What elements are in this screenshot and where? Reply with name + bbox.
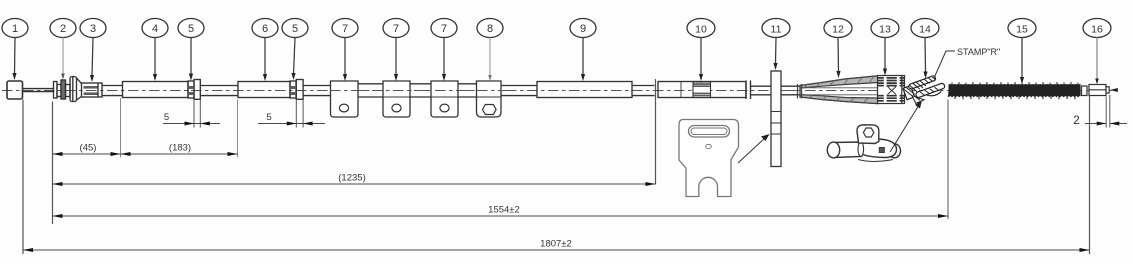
leader from equalizer to clevis bbox=[890, 100, 922, 152]
extension line x303.1 (5 dim) bbox=[302, 100, 304, 128]
svg-text:(183): (183) bbox=[169, 143, 191, 154]
dark square notch bbox=[879, 148, 884, 153]
bracket 7a bbox=[331, 81, 359, 117]
leader arrowhead balloon 13 bbox=[883, 69, 887, 76]
balloon 2 bbox=[50, 19, 76, 38]
balloon 15 bbox=[1008, 19, 1036, 38]
collar 5 second bbox=[194, 80, 200, 100]
leader line balloon 16 bbox=[1096, 38, 1098, 79]
bracket 7c bbox=[431, 81, 458, 117]
extension line x1106.2 (2 dim) bbox=[1105, 97, 1107, 128]
leader line balloon 7b bbox=[395, 38, 397, 76]
inner cable left bbox=[23, 89, 55, 92]
centerline bbox=[2, 90, 1116, 92]
svg-text:1554±2: 1554±2 bbox=[488, 205, 520, 216]
balloon numbers bbox=[12, 23, 1103, 36]
dim 1554±2 bbox=[53, 205, 949, 219]
thin tube bbox=[102, 86, 123, 96]
balloon leader arrowheads bbox=[12, 63, 1098, 85]
connector body / hook bbox=[861, 139, 897, 158]
bracket 8 bbox=[477, 81, 502, 117]
svg-text:4: 4 bbox=[152, 23, 158, 35]
ribbed sleeve 10 bbox=[693, 82, 711, 98]
tube segment 10 bbox=[658, 82, 746, 98]
clevis fork 14 bbox=[902, 73, 946, 105]
leader arrowhead balloon 16 bbox=[1095, 79, 1099, 85]
balloon 14 bbox=[911, 19, 939, 38]
collar 5b ribbed bbox=[290, 81, 296, 98]
balloon 9 bbox=[570, 19, 596, 38]
rod after plate bbox=[781, 86, 801, 95]
svg-text:7: 7 bbox=[342, 23, 348, 35]
balloon 12 bbox=[824, 19, 852, 38]
balloon 13 bbox=[871, 19, 899, 38]
leader line balloon 15 bbox=[1021, 38, 1023, 78]
balloon 16 bbox=[1083, 19, 1111, 38]
balloon 6 bbox=[252, 19, 278, 38]
conduit tube 6 bbox=[238, 82, 290, 98]
svg-text:6: 6 bbox=[262, 23, 268, 35]
leader arrowhead balloon 4 bbox=[153, 74, 157, 81]
leader line balloon 5 bbox=[190, 38, 192, 75]
leader arrowhead balloon 8 bbox=[488, 75, 492, 81]
rod B bbox=[66, 85, 71, 97]
svg-text:7: 7 bbox=[441, 23, 447, 35]
svg-text:(1235): (1235) bbox=[338, 173, 365, 184]
dim (1235) bbox=[53, 173, 656, 187]
balloon 10 bbox=[687, 19, 715, 38]
collar 5 ribbed bbox=[188, 81, 194, 98]
leader arrowhead balloon 6 bbox=[263, 74, 267, 81]
svg-text:2: 2 bbox=[1073, 113, 1080, 127]
extension line x23 (1807 left) bbox=[22, 100, 24, 255]
svg-text:1807±2: 1807±2 bbox=[540, 239, 572, 250]
balloon 11 bbox=[762, 19, 790, 38]
leader arrowhead balloon 15 bbox=[1020, 77, 1024, 84]
rod A bbox=[57, 85, 61, 97]
cable tail arrow bbox=[1110, 88, 1118, 92]
leader from mounting plate to plate 11 bbox=[738, 134, 770, 163]
leader line balloon 13 bbox=[884, 38, 886, 70]
svg-text:10: 10 bbox=[695, 24, 707, 36]
tube between brackets bbox=[358, 84, 383, 97]
dim 1807±2 bbox=[23, 239, 1090, 253]
end cap double line bbox=[746, 81, 751, 100]
conduit tube 9 bbox=[537, 82, 632, 98]
collar 5b second bbox=[296, 80, 303, 100]
right end ellipse bbox=[889, 144, 901, 158]
extension line x1109.8 (2 dim) bbox=[1109, 95, 1111, 128]
svg-text:3: 3 bbox=[90, 23, 96, 35]
washer B dark bbox=[61, 80, 66, 99]
cable end fitting 1 bbox=[7, 81, 23, 99]
balloons group bbox=[2, 19, 1111, 38]
thin tube bbox=[632, 86, 655, 96]
cylinder bbox=[834, 142, 862, 158]
leader arrowhead balloon 5b bbox=[291, 73, 295, 80]
balloon 8 bbox=[477, 19, 503, 38]
grommet 3 bbox=[82, 83, 103, 97]
balloon 1 bbox=[2, 19, 28, 38]
washer A bbox=[54, 82, 58, 99]
extension line x52.5 bbox=[52, 102, 54, 225]
balloon leader lines bbox=[15, 38, 1098, 79]
conduit tube 4 bbox=[123, 82, 189, 98]
leader line balloon 7a bbox=[344, 38, 346, 76]
spring 15 bbox=[949, 82, 1081, 99]
balloon 7c bbox=[431, 19, 457, 38]
leader line balloon 9 bbox=[582, 38, 584, 76]
dim 2 (right end) bbox=[1073, 113, 1127, 127]
leader line balloon 2 bbox=[62, 38, 64, 74]
STAMP"R" note bbox=[934, 47, 1000, 78]
bracket 7b bbox=[383, 81, 410, 117]
extension line x948 (1554 right) bbox=[947, 100, 949, 220]
leader line balloon 5b bbox=[294, 38, 296, 75]
leader arrowhead balloon 7a bbox=[343, 74, 347, 81]
leader arrowhead balloon 2 bbox=[61, 74, 65, 80]
leader arrowhead balloon 5 bbox=[189, 74, 193, 81]
joint ellipse bbox=[858, 142, 864, 157]
svg-text:5: 5 bbox=[292, 23, 298, 35]
leader line balloon 7c bbox=[443, 38, 445, 76]
extension line x296.3 (5 dim) bbox=[295, 100, 297, 128]
thin tube bbox=[303, 86, 330, 96]
balloon 7b bbox=[383, 19, 409, 38]
extension line x1089.5 (1807 right) bbox=[1089, 96, 1091, 254]
leader line balloon 14 bbox=[924, 38, 927, 73]
tab with hex hole bbox=[857, 125, 879, 144]
leader line balloon 10 bbox=[700, 38, 702, 76]
end fitting 16 bbox=[1089, 85, 1109, 96]
leader arrowhead balloon 14 bbox=[923, 72, 927, 79]
balloon 5 bbox=[178, 19, 204, 38]
leader arrowhead balloon 7c bbox=[442, 74, 446, 81]
extension line x120.5 bbox=[120, 98, 122, 158]
extension line x655.5 (1235 right) bbox=[655, 79, 657, 185]
dim (45)/(183) bbox=[53, 143, 238, 157]
svg-text:16: 16 bbox=[1091, 24, 1103, 36]
spring end collar bbox=[1082, 86, 1088, 96]
leader line balloon 1 bbox=[14, 38, 17, 75]
rod to plate bbox=[751, 86, 772, 95]
leader line balloon 8 bbox=[489, 38, 491, 76]
leader arrowhead balloon 9 bbox=[581, 74, 585, 81]
svg-text:12: 12 bbox=[832, 24, 844, 36]
extension line x200.3 (5 dim) bbox=[199, 100, 201, 128]
balloon 5b bbox=[282, 19, 308, 38]
svg-text:15: 15 bbox=[1016, 24, 1028, 36]
equalizer part (bottom, under boot) bbox=[827, 125, 900, 162]
svg-text:5: 5 bbox=[266, 112, 271, 123]
leader line balloon 4 bbox=[154, 38, 156, 76]
leader arrowhead balloon 3 bbox=[90, 75, 94, 82]
flange 2 bbox=[70, 77, 77, 102]
svg-text:14: 14 bbox=[919, 24, 931, 36]
leader line balloon 12 bbox=[837, 38, 840, 73]
dim 5 left bbox=[163, 112, 220, 126]
svg-text:(45): (45) bbox=[80, 143, 97, 154]
balloon 4 bbox=[142, 19, 168, 38]
svg-text:2: 2 bbox=[60, 23, 66, 35]
balloon 3 bbox=[80, 19, 106, 38]
boot ribbed cap 13 bbox=[878, 76, 905, 104]
leader arrowhead balloon 12 bbox=[836, 71, 840, 78]
mounting plate (bottom middle) bbox=[679, 120, 739, 197]
taper bbox=[77, 78, 82, 100]
balloon 7a bbox=[332, 19, 358, 38]
leader line balloon 3 bbox=[92, 38, 93, 77]
leader arrowhead balloon 11 bbox=[773, 63, 777, 70]
leader line balloon 6 bbox=[264, 38, 266, 76]
svg-text:1: 1 bbox=[12, 23, 18, 35]
vertical support plate 11 bbox=[771, 71, 781, 167]
dim 5 right bbox=[258, 112, 325, 126]
leader arrowhead balloon 7b bbox=[394, 74, 398, 81]
svg-text:STAMP"R": STAMP"R" bbox=[957, 47, 1000, 57]
leader line balloon 11 bbox=[775, 38, 778, 64]
leader arrowhead balloon 1 bbox=[12, 73, 16, 80]
svg-text:8: 8 bbox=[487, 23, 493, 35]
leader arrowhead balloon 10 bbox=[699, 74, 703, 81]
svg-text:11: 11 bbox=[771, 24, 782, 36]
svg-text:7: 7 bbox=[393, 23, 399, 35]
svg-text:5: 5 bbox=[188, 23, 194, 35]
bottom shadow arc bbox=[858, 160, 893, 162]
boot cone 12 bbox=[784, 76, 903, 104]
thin tube after bracket 4 bbox=[501, 86, 537, 96]
centerline redraw over brackets bbox=[330, 90, 510, 92]
thin tube bbox=[201, 86, 239, 96]
svg-text:13: 13 bbox=[879, 24, 891, 36]
extension line x237.5 bbox=[237, 100, 239, 158]
extension lines bbox=[23, 79, 1110, 254]
svg-text:9: 9 bbox=[580, 23, 586, 35]
svg-text:5: 5 bbox=[164, 112, 169, 123]
extension line x194 (5 dim) bbox=[193, 100, 195, 128]
